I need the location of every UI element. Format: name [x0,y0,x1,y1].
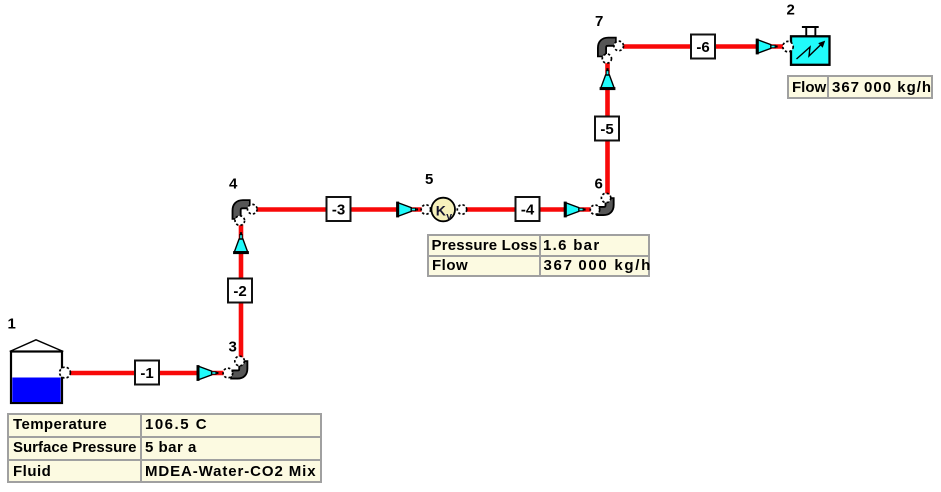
pipe -6- wire elbow 7 to component 2 [623,44,784,49]
node circle 3 left [223,368,233,378]
data table for valve 5 [427,234,650,277]
node circle 5 left [421,205,430,214]
pipe label box -2- [228,279,252,303]
component 2 (flow demand box) [791,27,830,65]
svg-text:K: K [436,203,446,219]
svg-text:1: 1 [8,316,16,333]
pipe -1- wire tank to elbow 3 [70,371,224,376]
node circle 5 right [457,205,466,214]
pipe label box -6- [691,35,715,59]
svg-text:-5: -5 [600,121,613,138]
svg-text:6: 6 [595,176,603,193]
svg-text:-6: -6 [696,39,709,56]
pipe -4- wire valve 5 to elbow 6 [467,207,592,212]
tank node 1 [10,340,64,403]
pipe label box -5- [595,117,619,141]
data table for tank node 1 [7,413,322,483]
node circle 6 left [590,205,599,214]
node circle 3 top [235,356,245,366]
node circle at tank outlet [60,367,71,378]
svg-text:-2: -2 [233,283,246,300]
svg-text:v: v [446,211,452,223]
elbow fitting node 3 [230,360,243,374]
node circle 2 inlet [783,41,793,51]
flow arrow on pipe -6- [756,39,778,55]
pipe -3- wire elbow 4 to valve 5 [256,207,422,212]
flow arrow on pipe -3- [396,202,418,218]
elbow fitting node 4 [237,204,251,220]
elbow fitting node 7 [602,42,617,58]
flow arrow on pipe -2- (pointing up) [233,232,249,254]
svg-text:5: 5 [425,171,433,188]
svg-text:-3: -3 [332,202,345,219]
flow arrow on pipe -5- (pointing up) [600,68,616,90]
svg-text:-4: -4 [521,202,535,219]
node circle 7 right [614,41,624,51]
svg-text:3: 3 [229,339,237,356]
valve Kv node 5 [431,198,455,223]
data table for component 2 [787,75,933,99]
pipe -2- wire elbow 3 up to elbow 4 [239,225,244,358]
svg-text:-1: -1 [140,365,153,382]
flow arrow on pipe -1- [197,365,219,381]
flow arrow on pipe -4- [564,202,586,218]
svg-text:2: 2 [787,2,795,19]
pipe label box -1- [135,361,159,385]
elbow fitting node 6 [596,197,609,211]
node circle 4 bottom [235,216,245,226]
node circle 7 bottom [602,54,611,63]
pipe -5- wire elbow 6 up to elbow 7 [605,63,610,195]
node circle 6 top [601,193,610,202]
pipe label box -4- [516,197,540,221]
svg-text:4: 4 [229,176,238,193]
node circle 4 right [248,204,258,214]
svg-text:7: 7 [595,13,603,30]
pipe label box -3- [327,197,351,221]
